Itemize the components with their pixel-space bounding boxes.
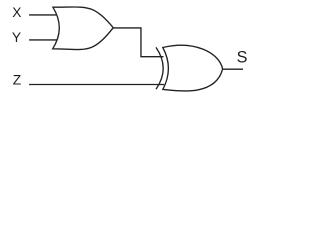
wire Y input [29,39,57,41]
wire X input [29,14,57,16]
wire Z to XOR input [29,84,164,86]
wire S output [223,68,243,70]
svg-text:S: S [237,49,248,67]
or-gate U1 [53,7,113,50]
svg-text:X: X [12,5,21,20]
xor-gate U2 input arc [156,47,163,89]
svg-text:Z: Z [13,73,21,88]
wire OR output to XOR top input [113,28,164,57]
svg-text:Y: Y [12,30,21,45]
xor-gate U2 body [163,45,223,91]
